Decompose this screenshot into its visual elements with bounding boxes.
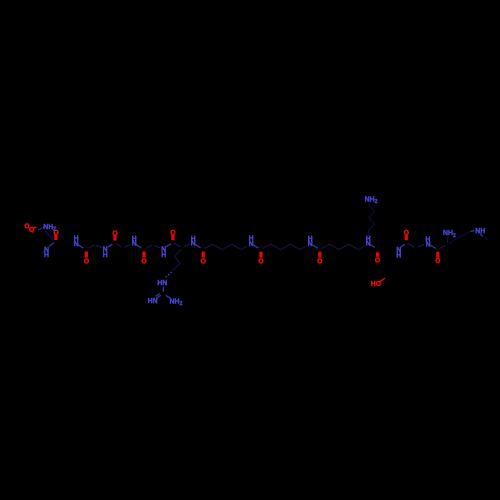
svg-text:H: H bbox=[44, 252, 49, 259]
svg-text:HN: HN bbox=[157, 280, 167, 287]
svg-text:H: H bbox=[103, 252, 108, 259]
svg-text:N: N bbox=[426, 241, 431, 248]
svg-text:N: N bbox=[366, 241, 371, 248]
svg-text:HN: HN bbox=[148, 298, 158, 305]
svg-text:O: O bbox=[112, 230, 118, 237]
svg-text:H: H bbox=[161, 252, 166, 259]
svg-text:O: O bbox=[404, 230, 410, 237]
svg-text:O: O bbox=[29, 227, 35, 234]
svg-text:O: O bbox=[141, 258, 147, 265]
svg-text:O: O bbox=[201, 258, 207, 265]
svg-text:O: O bbox=[317, 259, 323, 266]
svg-text:N: N bbox=[74, 241, 79, 248]
svg-text:H: H bbox=[396, 252, 401, 259]
svg-text:O: O bbox=[170, 230, 176, 237]
svg-text:O: O bbox=[258, 259, 264, 266]
svg-text:O: O bbox=[435, 258, 441, 265]
svg-text:N: N bbox=[308, 241, 313, 248]
svg-text:O: O bbox=[84, 258, 90, 265]
svg-text:O: O bbox=[375, 257, 381, 264]
svg-text:N: N bbox=[191, 241, 196, 248]
svg-text:N: N bbox=[132, 241, 137, 248]
svg-text:NH: NH bbox=[475, 228, 485, 235]
svg-text:N: N bbox=[249, 241, 254, 248]
svg-text:HO: HO bbox=[371, 281, 382, 288]
